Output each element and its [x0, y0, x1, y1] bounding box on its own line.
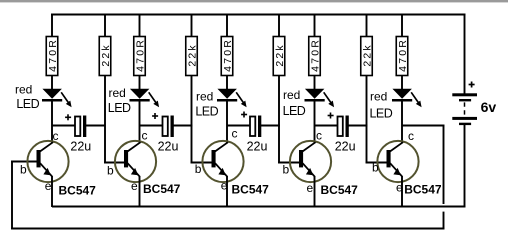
svg-text:470R: 470R: [134, 38, 146, 72]
svg-text:red: red: [109, 86, 126, 100]
svg-text:c: c: [53, 129, 59, 143]
svg-text:BC547: BC547: [321, 183, 359, 197]
svg-text:c: c: [232, 127, 238, 141]
svg-text:red: red: [196, 90, 213, 104]
svg-text:22u: 22u: [335, 140, 356, 154]
svg-text:LED: LED: [195, 105, 218, 119]
svg-text:470R: 470R: [397, 38, 409, 72]
svg-text:470R: 470R: [222, 38, 234, 72]
svg-text:BC547: BC547: [404, 182, 442, 196]
svg-text:e: e: [307, 181, 314, 195]
svg-text:LED: LED: [283, 104, 306, 118]
svg-text:LED: LED: [370, 107, 393, 121]
svg-text:b: b: [283, 163, 290, 177]
svg-text:22u: 22u: [247, 140, 268, 154]
svg-text:e: e: [45, 179, 52, 193]
svg-text:470R: 470R: [309, 38, 321, 72]
svg-text:6v: 6v: [481, 99, 497, 115]
svg-text:BC547: BC547: [59, 184, 97, 198]
svg-text:LED: LED: [108, 101, 131, 115]
svg-text:LED: LED: [16, 97, 39, 111]
svg-text:b: b: [107, 164, 114, 178]
svg-text:b: b: [20, 162, 27, 176]
svg-text:b: b: [372, 161, 379, 175]
svg-text:red: red: [370, 90, 387, 104]
svg-text:BC547: BC547: [143, 182, 181, 196]
svg-text:470R: 470R: [47, 38, 59, 72]
svg-text:red: red: [283, 88, 300, 102]
svg-text:22k: 22k: [274, 43, 286, 67]
svg-text:22u: 22u: [158, 140, 179, 154]
svg-text:22u: 22u: [70, 140, 91, 154]
svg-text:c: c: [408, 129, 414, 143]
svg-text:c: c: [316, 129, 322, 143]
svg-text:e: e: [131, 179, 138, 193]
svg-text:22k: 22k: [186, 43, 198, 67]
svg-text:red: red: [15, 83, 32, 97]
svg-text:22k: 22k: [361, 43, 373, 67]
svg-text:c: c: [142, 129, 148, 143]
svg-text:b: b: [195, 162, 202, 176]
svg-text:BC547: BC547: [232, 183, 270, 197]
svg-text:22k: 22k: [100, 43, 112, 67]
